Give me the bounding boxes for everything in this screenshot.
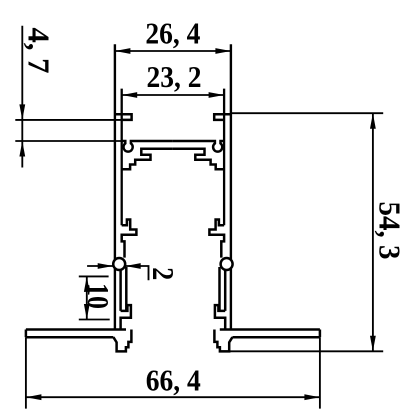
screw slot right	[220, 267, 226, 311]
wall snap hook middle left	[122, 220, 137, 258]
dim 2 arrow left	[125, 263, 141, 269]
dim 4,7 arrow down	[19, 104, 25, 120]
dim 10 line	[86, 276, 88, 319]
screw boss right	[221, 258, 233, 270]
dim 66,4 ext line right	[319, 337, 321, 408]
svg-text:4, 7: 4, 7	[22, 28, 57, 74]
dim 4,7 line	[21, 26, 23, 168]
flange right edge	[319, 330, 322, 338]
ledge with keyhole left	[122, 141, 173, 152]
dim 2 leader	[125, 266, 148, 280]
dim 54,3 arrow up	[370, 113, 376, 129]
dim 10 arrow up	[84, 276, 90, 292]
dim 66,4 arrow left	[26, 394, 42, 400]
wall snap hook lower left	[121, 305, 131, 329]
wall snap hook middle right	[209, 220, 224, 258]
dim 66,4 line	[26, 396, 320, 398]
inner wall upper left (and 23,2 extension)	[121, 89, 123, 226]
dim 10 ext line bottom	[79, 319, 110, 321]
dim 4,7 arrow up	[19, 141, 25, 157]
svg-text:10: 10	[81, 283, 116, 309]
flange top surface right	[220, 328, 320, 331]
dim 26,4 arrow left	[115, 48, 130, 54]
dim 26,4 line	[115, 50, 231, 52]
dim 2 line left	[87, 265, 113, 267]
hat underside hook right	[173, 149, 224, 170]
svg-text:54, 3: 54, 3	[373, 202, 408, 260]
svg-text:26, 4: 26, 4	[145, 15, 200, 50]
dim 4,7 ext line upper	[15, 119, 121, 121]
dim 23,2 line	[122, 94, 224, 96]
svg-text:23, 2: 23, 2	[147, 59, 202, 94]
top arm lip left	[115, 114, 132, 120]
mounting foot left	[113, 330, 131, 352]
dim 26,4 arrow right	[215, 48, 231, 54]
flange top surface left	[26, 328, 126, 331]
dim 23,2 arrow right	[209, 92, 225, 98]
dim 54,3 ext line top	[231, 112, 383, 114]
dim 2 arrow right	[98, 263, 114, 269]
flange bottom left	[26, 336, 114, 339]
svg-text:66, 4: 66, 4	[146, 362, 201, 397]
ledge with keyhole right	[173, 141, 224, 152]
screw boss left	[113, 258, 125, 270]
wall snap hook lower right	[215, 305, 225, 329]
dim 66,4 arrow right	[304, 394, 320, 400]
dim 4,7 ext line lower	[15, 140, 121, 142]
screw slot left	[121, 267, 127, 311]
mounting foot right	[214, 330, 232, 352]
svg-text:2: 2	[146, 267, 181, 280]
dim 54,3 arrow down	[370, 336, 376, 352]
dim 54,3 ext line bottom	[220, 350, 383, 352]
dim 10 ext line top	[79, 275, 109, 277]
inner wall upper right (and 23,2 extension)	[223, 89, 225, 226]
dim 23,2 arrow left	[122, 92, 138, 98]
flange left edge	[25, 330, 28, 338]
profile outer wall left (and 26,4 extension)	[114, 44, 116, 329]
profile outer wall right (and 26,4 extension)	[230, 44, 232, 329]
hat underside hook left	[122, 149, 173, 170]
flange bottom right	[232, 336, 320, 339]
top arm lip right	[214, 114, 231, 120]
dim 54,3 line	[372, 113, 374, 351]
dim 10 arrow down	[84, 304, 90, 320]
dim 66,4 ext line left	[25, 337, 27, 408]
